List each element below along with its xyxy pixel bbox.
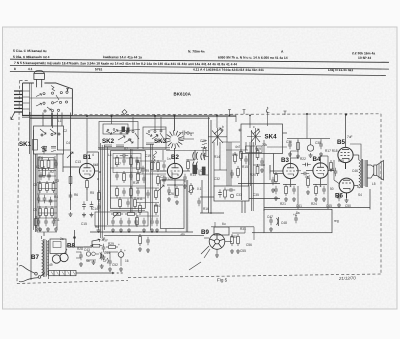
capacitor C48 xyxy=(269,217,273,225)
resistor R10 xyxy=(69,174,72,186)
ground xyxy=(269,227,273,231)
long verticals to detector xyxy=(195,117,211,213)
ground xyxy=(38,227,42,231)
svg-text:R10: R10 xyxy=(133,181,139,185)
ground xyxy=(215,253,219,257)
svg-text:-4a: -4a xyxy=(180,233,185,237)
horizontal links xyxy=(98,147,170,149)
left vertical xyxy=(17,81,20,284)
resistor R31 xyxy=(187,159,190,171)
ground xyxy=(306,190,310,194)
capacitor C55 xyxy=(120,154,128,158)
svg-text:BK610A: BK610A xyxy=(174,92,192,97)
ground xyxy=(260,168,264,172)
svg-text:C48: C48 xyxy=(281,221,287,225)
svg-text:10 5P 44: 10 5P 44 xyxy=(358,56,371,60)
resistor R44 xyxy=(330,160,333,172)
svg-text:L4: L4 xyxy=(108,153,112,157)
capacitor C25 xyxy=(162,176,166,184)
ground xyxy=(288,152,292,156)
svg-text:R21: R21 xyxy=(280,202,286,206)
ground xyxy=(102,255,106,259)
svg-text:SK4: SK4 xyxy=(265,134,278,141)
right vertical xyxy=(380,114,382,274)
resistor R24 xyxy=(157,174,160,186)
resistor R34 xyxy=(240,149,243,161)
svg-text:7uF: 7uF xyxy=(347,135,353,139)
ground xyxy=(150,228,154,232)
resistor R02 xyxy=(47,158,50,170)
extra power density xyxy=(66,246,121,266)
resistor R25 xyxy=(139,234,142,246)
svg-text:C24: C24 xyxy=(154,204,160,208)
capacitor C57 xyxy=(108,258,112,266)
resistor R19 xyxy=(111,213,123,216)
svg-text:R11: R11 xyxy=(137,197,143,201)
svg-text:C52: C52 xyxy=(112,263,118,267)
switch contacts row2 xyxy=(43,102,45,104)
resistor R28 xyxy=(155,188,158,200)
ground xyxy=(337,203,341,207)
svg-text:R28: R28 xyxy=(77,247,83,251)
B9 heater diagonals xyxy=(189,249,210,270)
capacitor C28 xyxy=(146,190,150,198)
SK4 column components xyxy=(226,117,248,186)
capacitor C15 xyxy=(129,172,133,180)
ground xyxy=(230,249,234,253)
capacitor C32 xyxy=(155,218,159,226)
svg-text:R15: R15 xyxy=(242,165,248,169)
resistor R11 xyxy=(116,155,119,167)
svg-text:14kj N 11-41 4a1: 14kj N 11-41 4a1 xyxy=(328,68,353,72)
tube B1 xyxy=(79,163,94,178)
resistor R52 xyxy=(307,176,310,188)
ground xyxy=(82,213,86,217)
svg-text:R12: R12 xyxy=(165,177,171,181)
svg-text:2a: 2a xyxy=(60,237,64,241)
svg-text:B3: B3 xyxy=(281,157,289,164)
capacitor C56 xyxy=(141,166,145,174)
svg-text:B9: B9 xyxy=(201,229,209,236)
ground xyxy=(111,228,115,232)
svg-text:C13: C13 xyxy=(75,160,81,164)
tube B2 xyxy=(167,163,182,178)
svg-text:C31: C31 xyxy=(232,153,238,157)
capacitor C47 xyxy=(337,193,341,201)
ground xyxy=(345,198,349,202)
svg-text:Fig 5: Fig 5 xyxy=(217,278,228,283)
resistor R26 xyxy=(137,160,140,172)
svg-text:B5: B5 xyxy=(337,139,345,146)
capacitor C14 xyxy=(115,172,119,180)
svg-text:8a: 8a xyxy=(296,211,300,215)
resistor R20 xyxy=(125,213,137,216)
capacitor C49 xyxy=(294,215,298,223)
svg-text:R20: R20 xyxy=(250,173,256,177)
svg-text:6050 9N 7k u. N N u u. 14 A 6.: 6050 9N 7k u. N N u u. 14 A 6.050 na 41 … xyxy=(218,55,288,59)
svg-text:5 C1a. C 05 kanaal 4u: 5 C1a. C 05 kanaal 4u xyxy=(13,49,47,53)
capacitor C08 xyxy=(52,218,56,226)
tube B4 xyxy=(313,163,328,178)
ground xyxy=(108,267,112,271)
capacitor C11 xyxy=(69,192,73,200)
capacitor C05 xyxy=(49,197,53,205)
svg-text:C38: C38 xyxy=(315,141,321,145)
resistor R23 xyxy=(157,160,160,172)
capacitor C42 xyxy=(292,186,296,194)
svg-text:CF: CF xyxy=(103,259,107,263)
svg-text:C44: C44 xyxy=(104,251,110,255)
antenna s-symbol on rail xyxy=(266,107,269,113)
svg-text:C19: C19 xyxy=(145,154,151,158)
svg-text:1n: 1n xyxy=(167,157,171,161)
resistor R13 xyxy=(123,171,126,183)
ground xyxy=(236,249,240,253)
svg-text:+: + xyxy=(124,249,126,253)
mains cord + plug xyxy=(19,265,45,281)
resistor R30 xyxy=(155,203,158,215)
svg-text:5 03a. 6 08kanaaln mt 4: 5 03a. 6 08kanaaln mt 4 xyxy=(13,55,50,59)
resistor R01 xyxy=(41,158,44,170)
ground xyxy=(138,247,142,251)
capacitor C07 xyxy=(44,218,48,226)
svg-text:B7: B7 xyxy=(31,254,39,261)
svg-text:L5: L5 xyxy=(372,182,376,186)
svg-text:C4: C4 xyxy=(66,141,70,145)
svg-text:SK2: SK2 xyxy=(102,138,115,145)
resistor R06 xyxy=(39,206,42,218)
resistor R17 xyxy=(119,197,122,209)
svg-text:4: 4 xyxy=(92,153,94,157)
svg-text:-B₄₄: -B₄₄ xyxy=(101,238,107,242)
capacitor C20 xyxy=(119,218,123,226)
svg-text:R19: R19 xyxy=(255,147,261,151)
svg-text:16: 16 xyxy=(125,259,129,263)
capacitor C19 xyxy=(111,218,115,226)
long verticals xyxy=(100,143,102,238)
svg-text:4n7: 4n7 xyxy=(235,145,241,149)
SK2 wafer contacts xyxy=(118,136,125,140)
svg-text:R2: R2 xyxy=(330,168,334,172)
ground xyxy=(309,153,313,157)
svg-text:C43: C43 xyxy=(84,248,90,252)
capacitor C04 xyxy=(43,195,47,203)
svg-text:C32: C32 xyxy=(214,177,220,181)
B9 top wiring xyxy=(211,222,254,240)
resistor R03 xyxy=(39,181,42,193)
svg-text:R29: R29 xyxy=(108,242,114,246)
block outline xyxy=(23,83,73,115)
svg-text:R14: R14 xyxy=(214,155,220,159)
svg-text:C36: C36 xyxy=(286,140,292,144)
svg-text:C6: C6 xyxy=(39,156,43,160)
svg-text:C14: C14 xyxy=(92,207,98,211)
resistor R41 xyxy=(297,140,300,152)
speaker xyxy=(371,161,384,181)
capacitor C21 xyxy=(127,218,131,226)
svg-text:C15: C15 xyxy=(81,222,87,226)
heater run to right xyxy=(44,230,123,274)
B3 plate up xyxy=(291,157,299,159)
oscillator coil boxes above SK2/SK3 xyxy=(99,110,166,150)
svg-text:B4: B4 xyxy=(313,156,321,163)
capacitor C23 xyxy=(102,244,106,252)
svg-text:4.11 A 4 14039414 7444a 4241: 4.11 A 4 14039414 7444a 4241414 44a 41n … xyxy=(193,68,264,72)
capacitor C37 xyxy=(227,188,235,192)
svg-text:6u: 6u xyxy=(222,222,226,226)
svg-text:6k8: 6k8 xyxy=(93,163,98,167)
B3 grid feed xyxy=(269,165,271,180)
ground xyxy=(271,188,275,192)
capacitor C24 xyxy=(162,162,166,170)
svg-text:S: S xyxy=(190,133,192,137)
svg-text:C17: C17 xyxy=(115,162,121,166)
ground xyxy=(274,196,278,200)
box below SK2 can xyxy=(95,212,148,226)
ground xyxy=(119,228,123,232)
resistor R46 xyxy=(203,146,206,158)
capacitor C03 xyxy=(37,195,41,203)
ground xyxy=(54,227,58,231)
svg-text:L2: L2 xyxy=(36,165,40,169)
inner partition xyxy=(30,83,73,115)
capacitor C51 xyxy=(100,252,104,260)
resistor R07 xyxy=(45,206,48,218)
resistor R09 xyxy=(86,178,89,190)
wire from IF arcs to SK4 area xyxy=(160,151,209,199)
capacitor C17 xyxy=(136,188,140,196)
capacitor C39 xyxy=(260,158,264,166)
capacitor C29 xyxy=(134,218,138,226)
resistor R04 xyxy=(46,181,49,193)
verticals dropping to B+ rail xyxy=(297,186,299,210)
antenna arrow xyxy=(11,113,15,120)
resistor R43 xyxy=(315,184,318,196)
ground xyxy=(167,197,171,201)
capacitor C27 xyxy=(142,175,146,183)
resistor R22 xyxy=(98,190,101,202)
SK3 wafer contacts xyxy=(152,135,158,139)
header rule 1 xyxy=(10,59,389,62)
svg-text:R22: R22 xyxy=(300,157,306,161)
junction dots on top dashed rail xyxy=(306,113,308,115)
resistor R15 xyxy=(116,186,119,198)
capacitor C12 xyxy=(122,157,126,165)
resistor R51 xyxy=(275,172,278,184)
mains transformer xyxy=(42,236,49,279)
heater box above rectifier xyxy=(50,239,66,254)
capacitor C06 xyxy=(37,218,41,226)
svg-text:R2: R2 xyxy=(50,170,54,174)
ground xyxy=(284,197,288,201)
svg-text:4a: 4a xyxy=(86,259,90,263)
capacitor C09 xyxy=(82,201,86,209)
svg-text:R30: R30 xyxy=(231,235,237,239)
svg-text:b: b xyxy=(222,125,224,129)
scattered tiny value labels for texture xyxy=(58,119,362,267)
capacitor C38 xyxy=(218,189,222,197)
svg-text:kaalkanas 14.n 41a 44 1a: kaalkanas 14.n 41a 44 1a xyxy=(103,55,142,59)
ground xyxy=(69,212,73,216)
ground xyxy=(97,228,101,232)
switch contacts inside block row1 xyxy=(36,88,70,112)
bottom xyxy=(17,281,128,284)
svg-text:8: 8 xyxy=(14,67,16,71)
ground xyxy=(183,184,187,188)
svg-text:22k: 22k xyxy=(262,143,268,147)
junction dots xyxy=(86,115,321,214)
capacitor C35 xyxy=(244,156,248,164)
capacitor C33 xyxy=(167,187,171,195)
ground xyxy=(175,200,179,204)
short top-left xyxy=(20,80,30,82)
ground xyxy=(314,197,318,201)
resistor R38 xyxy=(256,164,259,176)
svg-text:S4: S4 xyxy=(358,193,362,197)
grid line SK1 to B1 area upper xyxy=(57,149,71,151)
+B feed arrow xyxy=(68,239,100,247)
ground xyxy=(319,152,323,156)
svg-text:C7: C7 xyxy=(43,146,47,150)
IF can rect xyxy=(110,151,145,209)
ground xyxy=(292,197,296,201)
svg-text:C46: C46 xyxy=(352,169,358,173)
ground xyxy=(79,262,83,266)
svg-text:C26: C26 xyxy=(168,192,174,196)
SK4 fan drops xyxy=(213,142,215,186)
ground xyxy=(155,228,159,232)
resistor R21 xyxy=(136,215,139,227)
resistor R16 xyxy=(130,186,133,198)
ground xyxy=(142,228,146,232)
resistor R08 xyxy=(51,206,54,218)
tall can below B2 xyxy=(161,172,185,232)
capacitor C26 xyxy=(146,237,150,245)
svg-text:R25: R25 xyxy=(338,159,344,163)
resistor R37 xyxy=(256,148,259,160)
svg-text:SK3: SK3 xyxy=(154,138,167,145)
top horizontal xyxy=(74,114,381,115)
svg-text:R24: R24 xyxy=(311,202,317,206)
svg-text:C56: C56 xyxy=(246,243,252,247)
svg-text:R8: R8 xyxy=(95,225,99,229)
svg-text:L1: L1 xyxy=(58,119,62,123)
capacitor C44 xyxy=(302,163,310,167)
svg-text:4.1: 4.1 xyxy=(28,67,33,71)
SK2 feed verticals from band xyxy=(111,117,113,124)
svg-text:50: 50 xyxy=(330,187,334,191)
SK3 wafer box interior xyxy=(146,131,163,145)
resistor R35 xyxy=(237,166,240,178)
capacitor C36 xyxy=(230,170,234,178)
capacitor C30 xyxy=(142,218,146,226)
resistor R33 xyxy=(234,152,237,164)
drops from tuner block into box xyxy=(42,113,44,127)
resistor R36 xyxy=(224,188,227,200)
svg-text:C35: C35 xyxy=(253,193,259,197)
capacitor C53 xyxy=(42,146,46,154)
SK2 wafer box interior xyxy=(104,129,133,147)
svg-text:R5: R5 xyxy=(90,191,94,195)
svg-text:C50: C50 xyxy=(345,204,351,208)
svg-text:5761: 5761 xyxy=(95,67,103,71)
capacitor C34 xyxy=(183,174,187,182)
IF coil dark slugs right of B2 xyxy=(193,165,198,174)
svg-text:R4: R4 xyxy=(54,195,58,199)
resistor R45 xyxy=(90,244,102,247)
detector box xyxy=(200,180,280,213)
header rule 3 xyxy=(10,71,386,75)
capacitor C45 xyxy=(322,186,326,194)
capacitor C02 xyxy=(47,172,51,180)
right columns x 251-262 xyxy=(252,130,254,211)
svg-text:21/12/70: 21/12/70 xyxy=(338,275,356,281)
resistor R14 xyxy=(137,171,140,183)
ground xyxy=(46,227,50,231)
capacitor C01 xyxy=(39,172,43,180)
resistor R12 xyxy=(130,155,133,167)
capacitor C41 xyxy=(319,141,323,149)
resistor R47 xyxy=(190,183,193,195)
ground xyxy=(90,213,94,217)
capacitor C22 xyxy=(97,203,101,211)
resistor R49 xyxy=(35,216,38,228)
capacitor C50 xyxy=(79,252,83,260)
capacitor C10 xyxy=(90,201,94,209)
capacitor C52 xyxy=(197,198,201,206)
capacitor C54 xyxy=(54,160,58,168)
svg-text:C2: C2 xyxy=(63,129,67,133)
resistor R40 xyxy=(237,234,240,246)
svg-text:R6: R6 xyxy=(74,193,78,197)
mid horizontal rails xyxy=(166,150,209,152)
svg-text:reg: reg xyxy=(334,219,339,223)
resistor R32 xyxy=(176,186,179,198)
svg-text:B2: B2 xyxy=(171,154,179,161)
ground xyxy=(92,260,96,264)
extra SK1 density xyxy=(34,130,58,232)
svg-text:0.1: 0.1 xyxy=(197,187,202,191)
B4 plate to B6 grid xyxy=(333,160,335,180)
SK3 column xyxy=(151,144,164,230)
svg-text:C47: C47 xyxy=(267,215,273,219)
heater drop B3/B4 xyxy=(235,115,237,122)
tube B3 xyxy=(283,163,298,178)
tuning gang barrel xyxy=(34,70,45,87)
parts right of starburst xyxy=(178,131,194,140)
left long verticals xyxy=(35,154,37,232)
vertical drops from block xyxy=(53,113,71,211)
resistor R29 xyxy=(139,203,142,215)
capacitor C13 xyxy=(135,157,139,165)
svg-text:R9: R9 xyxy=(145,169,149,173)
heater wire band xyxy=(22,115,236,118)
capacitor C43 xyxy=(271,177,275,185)
IF transformer arcs xyxy=(193,152,205,170)
terminal strip xyxy=(49,271,77,276)
capacitor C16 xyxy=(122,188,126,196)
SK1 coil box xyxy=(34,126,64,154)
svg-text:49: 49 xyxy=(49,263,53,267)
capacitor C58 xyxy=(274,186,278,194)
ground xyxy=(127,228,131,232)
svg-text:2.2 30k 16m 4a: 2.2 30k 16m 4a xyxy=(352,51,375,55)
capacitor C40 xyxy=(288,141,292,149)
capacitor C18 xyxy=(126,199,130,207)
capacitor C59 xyxy=(301,172,309,176)
ground xyxy=(119,267,123,271)
ground xyxy=(322,197,326,201)
